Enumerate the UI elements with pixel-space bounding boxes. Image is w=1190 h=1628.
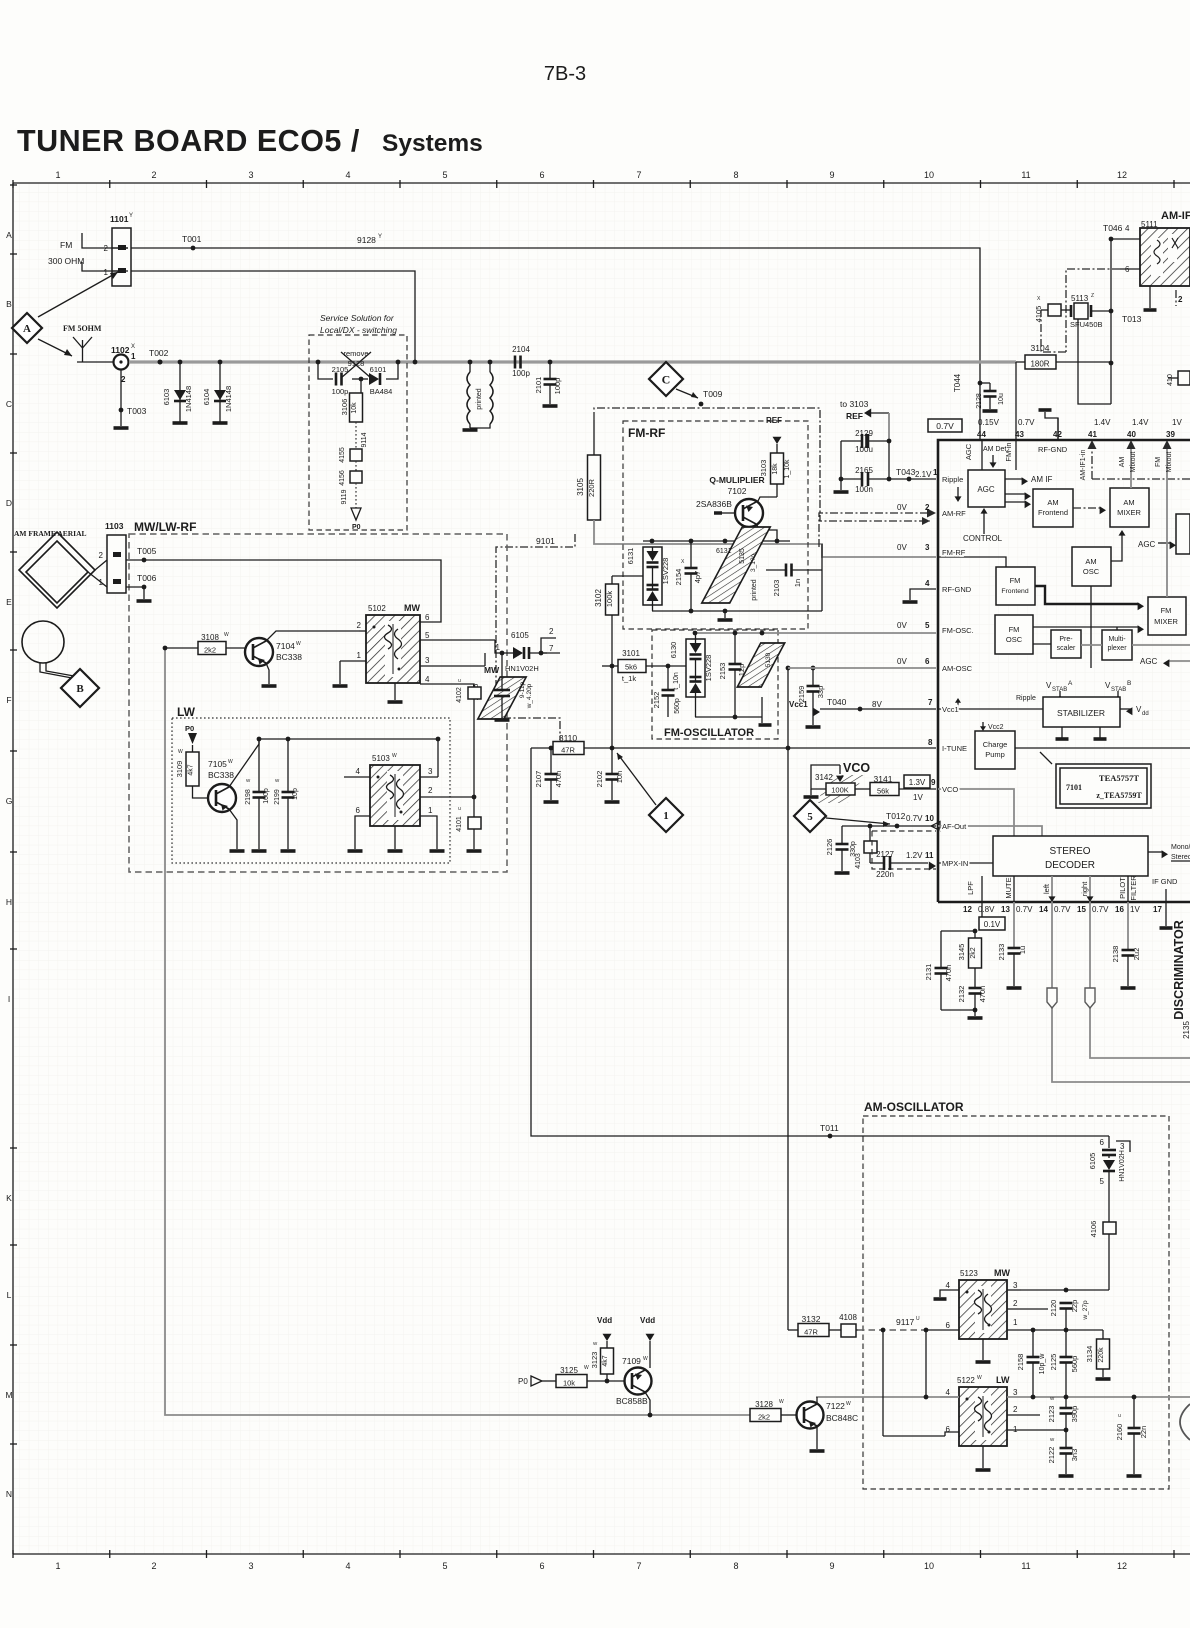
internal block STEREO DECODER bbox=[993, 836, 1148, 876]
svg-text:0.15V: 0.15V bbox=[978, 418, 1000, 427]
output Mono Stereo bbox=[1148, 844, 1190, 861]
link 4107 right edge bbox=[1167, 371, 1190, 386]
svg-text:4: 4 bbox=[925, 579, 930, 588]
svg-text:5k6: 5k6 bbox=[625, 663, 637, 672]
node 5 diamond bbox=[794, 800, 890, 832]
op-amp U7101 TEA5757T outline bbox=[938, 440, 1190, 902]
svg-text:C: C bbox=[6, 399, 12, 409]
supply Vdd 2 bbox=[640, 1316, 655, 1368]
label 0V pin3 bbox=[897, 543, 930, 552]
resistor 3123 4k7 bbox=[590, 1341, 614, 1383]
svg-text:2.1V: 2.1V bbox=[915, 470, 932, 479]
svg-text:FM-RF: FM-RF bbox=[628, 426, 665, 440]
resistor 3125 10k bbox=[556, 1365, 624, 1388]
svg-text:T001: T001 bbox=[182, 234, 202, 244]
svg-text:2: 2 bbox=[1178, 295, 1183, 304]
label 14 0.7V bbox=[1039, 905, 1071, 914]
svg-text:16: 16 bbox=[1115, 905, 1124, 914]
label 16 1V bbox=[1115, 905, 1140, 914]
diode 6105 HN1V02H bbox=[496, 627, 556, 673]
svg-text:w_4.20p: w_4.20p bbox=[526, 683, 533, 709]
svg-text:TUNER BOARD ECO5 /: TUNER BOARD ECO5 / bbox=[17, 124, 360, 158]
svg-text:MW: MW bbox=[994, 1268, 1010, 1278]
svg-text:7B-3: 7B-3 bbox=[544, 63, 586, 85]
svg-text:Vcc2: Vcc2 bbox=[988, 724, 1004, 731]
svg-text:0V: 0V bbox=[897, 657, 907, 666]
wire arrows from node A bbox=[38, 272, 118, 356]
svg-text:2160: 2160 bbox=[1115, 1424, 1124, 1441]
svg-text:5: 5 bbox=[442, 1561, 447, 1571]
internal label AGC right bbox=[1138, 540, 1176, 549]
resistor 3145 2k2 bbox=[957, 938, 982, 968]
svg-text:3: 3 bbox=[1013, 1388, 1018, 1397]
svg-text:5135: 5135 bbox=[739, 548, 746, 564]
svg-text:W: W bbox=[977, 1375, 982, 1381]
svg-text:100p: 100p bbox=[553, 378, 562, 395]
svg-text:AM: AM bbox=[1119, 457, 1126, 468]
svg-text:4105: 4105 bbox=[1034, 306, 1043, 323]
svg-text:1V: 1V bbox=[1172, 418, 1182, 427]
svg-text:7101: 7101 bbox=[1066, 783, 1082, 792]
svg-text:Y: Y bbox=[129, 213, 133, 219]
svg-text:33p: 33p bbox=[816, 686, 825, 699]
svg-text:2132: 2132 bbox=[957, 986, 966, 1003]
svg-text:MIXER: MIXER bbox=[1117, 508, 1141, 517]
svg-text:10: 10 bbox=[924, 170, 934, 180]
svg-text:AM: AM bbox=[1123, 498, 1134, 507]
transformer 5123 MW AM bbox=[934, 1268, 1049, 1362]
bottom pin MUTE bbox=[1004, 876, 1014, 902]
link 4155 bbox=[339, 447, 362, 463]
resistor 3128 2k2 bbox=[750, 1399, 796, 1422]
svg-text:3123: 3123 bbox=[590, 1352, 599, 1369]
wire FM-OSC top to pin 5 bbox=[693, 631, 936, 636]
capacitor 2158 10p bbox=[1016, 1330, 1046, 1397]
svg-text:6: 6 bbox=[425, 613, 430, 622]
svg-text:8: 8 bbox=[733, 170, 738, 180]
screen wire 9101 top bbox=[594, 408, 930, 525]
svg-text:Mixout: Mixout bbox=[1130, 452, 1137, 473]
svg-text:9: 9 bbox=[829, 1561, 834, 1571]
svg-text:3: 3 bbox=[425, 656, 430, 665]
svg-text:A: A bbox=[1068, 680, 1073, 687]
svg-text:4: 4 bbox=[1125, 224, 1130, 233]
svg-text:1.3V: 1.3V bbox=[909, 778, 926, 787]
wire long left vertical bbox=[163, 646, 750, 1418]
ground 5111 bbox=[1144, 286, 1157, 310]
resistor 3102 100k bbox=[594, 576, 643, 748]
capacitor 2120 22p bbox=[1049, 1300, 1089, 1330]
svg-text:22p: 22p bbox=[1070, 1300, 1079, 1313]
svg-text:W: W bbox=[224, 632, 229, 638]
pin name MPX-IN bbox=[942, 859, 968, 868]
svg-text:56k: 56k bbox=[877, 787, 889, 796]
svg-text:1.4V: 1.4V bbox=[1132, 418, 1149, 427]
svg-text:Multi-: Multi- bbox=[1108, 636, 1126, 643]
node REF arrow bbox=[766, 416, 782, 453]
svg-text:6105: 6105 bbox=[1088, 1153, 1097, 1170]
svg-text:3: 3 bbox=[925, 543, 930, 552]
svg-text:2: 2 bbox=[428, 786, 433, 795]
internal wire prescaler multiplexer bbox=[1081, 627, 1190, 645]
svg-text:K: K bbox=[6, 1193, 12, 1203]
svg-text:VCO: VCO bbox=[942, 785, 958, 794]
svg-text:6130: 6130 bbox=[669, 642, 678, 659]
svg-text:10: 10 bbox=[925, 814, 934, 823]
svg-text:0.7V: 0.7V bbox=[1092, 905, 1109, 914]
label FM 300 OHM bbox=[48, 240, 84, 266]
svg-text:AM-RF: AM-RF bbox=[942, 509, 966, 518]
svg-text:T005: T005 bbox=[137, 546, 157, 556]
svg-text:470n: 470n bbox=[554, 771, 563, 788]
test point T002 bbox=[149, 348, 169, 364]
svg-text:Vcc1: Vcc1 bbox=[789, 700, 808, 709]
svg-text:AM-IF1-in: AM-IF1-in bbox=[1080, 450, 1087, 481]
svg-text:100u: 100u bbox=[855, 445, 873, 454]
bottom pin IF GND bbox=[1152, 877, 1178, 902]
svg-text:T040: T040 bbox=[827, 697, 847, 707]
svg-text:4103: 4103 bbox=[855, 853, 862, 869]
svg-text:220n: 220n bbox=[876, 870, 894, 879]
svg-text:AGC: AGC bbox=[977, 485, 995, 494]
svg-text:Local/DX - switching: Local/DX - switching bbox=[320, 325, 397, 335]
svg-text:Mixout: Mixout bbox=[1166, 452, 1173, 473]
test point T012 bbox=[886, 811, 934, 828]
diode 6103 bbox=[162, 362, 193, 423]
svg-text:6103: 6103 bbox=[162, 389, 171, 406]
svg-text:2158: 2158 bbox=[1016, 1354, 1025, 1371]
transformer 5103 LW bbox=[344, 739, 476, 851]
svg-text:10p: 10p bbox=[292, 788, 299, 800]
svg-text:to 3103: to 3103 bbox=[840, 399, 869, 409]
capacitor 2126 330p bbox=[825, 826, 857, 873]
svg-text:1V: 1V bbox=[913, 793, 923, 802]
internal wire I-TUNE through bbox=[1015, 747, 1190, 749]
svg-text:BC338: BC338 bbox=[208, 770, 234, 780]
svg-text:0.7V: 0.7V bbox=[906, 814, 923, 823]
svg-text:2125: 2125 bbox=[1049, 1354, 1058, 1371]
svg-text:plexer: plexer bbox=[1107, 645, 1127, 652]
pin name RF-GND left bbox=[942, 585, 972, 594]
svg-text:4101: 4101 bbox=[456, 816, 463, 832]
svg-text:Systems: Systems bbox=[382, 130, 483, 157]
test point T001 bbox=[182, 234, 202, 250]
pin name AM-RF bbox=[942, 509, 966, 518]
svg-text:8V: 8V bbox=[872, 700, 882, 709]
svg-text:OSC: OSC bbox=[1083, 567, 1100, 576]
svg-text:7122: 7122 bbox=[826, 1401, 845, 1411]
svg-text:U: U bbox=[458, 806, 461, 811]
svg-text:AM-IF1: AM-IF1 bbox=[1161, 210, 1190, 222]
pin name FM-OSC. bbox=[942, 626, 974, 635]
resistor 3110 47R bbox=[553, 733, 584, 755]
svg-text:1V: 1V bbox=[1130, 905, 1140, 914]
label 1V 39 bbox=[1166, 418, 1182, 439]
svg-text:U: U bbox=[916, 1316, 920, 1322]
test point T009 bbox=[699, 389, 723, 406]
svg-text:AGC: AGC bbox=[964, 443, 973, 460]
svg-text:G: G bbox=[6, 796, 13, 806]
label MW/LW-RF bbox=[134, 520, 196, 534]
label DISCRIMINATOR bbox=[1172, 920, 1190, 1039]
internal ground stabilizer left bbox=[1056, 727, 1069, 739]
svg-text:2: 2 bbox=[549, 627, 554, 636]
internal label VSTAB B bbox=[1105, 680, 1131, 700]
svg-text:AM: AM bbox=[1085, 557, 1096, 566]
svg-text:40: 40 bbox=[1127, 430, 1136, 439]
svg-text:STEREO: STEREO bbox=[1049, 846, 1090, 857]
svg-text:4106: 4106 bbox=[1089, 1221, 1098, 1238]
transistor 7102 2SA836B bbox=[696, 484, 777, 541]
svg-text:FM: FM bbox=[1161, 606, 1172, 615]
svg-text:2: 2 bbox=[925, 503, 930, 512]
svg-text:REF: REF bbox=[766, 416, 782, 425]
resistor 3132 47R bbox=[788, 1314, 841, 1337]
boxed label 0.7V top bbox=[928, 419, 962, 432]
service solution dashed box bbox=[309, 335, 407, 530]
label 1.4V 40 bbox=[1127, 418, 1149, 439]
svg-text:AM: AM bbox=[1047, 498, 1058, 507]
svg-text:FM: FM bbox=[1010, 576, 1021, 585]
page number text bbox=[544, 63, 586, 85]
svg-text:1103: 1103 bbox=[105, 521, 124, 531]
jumper 9114 bbox=[356, 422, 368, 449]
label 0.15V 44 bbox=[977, 418, 1000, 439]
svg-text:44: 44 bbox=[977, 430, 986, 439]
internal block STABILIZER bbox=[1043, 697, 1120, 727]
svg-text:7: 7 bbox=[636, 170, 641, 180]
svg-text:FM: FM bbox=[60, 240, 72, 250]
capacitor 2102 10n bbox=[595, 748, 624, 802]
svg-text:0.7V: 0.7V bbox=[1018, 418, 1035, 427]
transistor 7122 BC848C bbox=[797, 1397, 859, 1451]
wire 1101 pin1 bbox=[131, 271, 415, 361]
capacitor 2103 1n bbox=[766, 564, 822, 597]
loop antenna circle bbox=[22, 621, 74, 678]
svg-text:CONTROL: CONTROL bbox=[963, 534, 1003, 543]
svg-text:2SA836B: 2SA836B bbox=[696, 499, 732, 509]
svg-text:100n: 100n bbox=[855, 485, 873, 494]
resistor 3134 220k bbox=[1085, 1330, 1111, 1379]
svg-text:FM-OSCILLATOR: FM-OSCILLATOR bbox=[664, 727, 754, 739]
svg-text:0.1V: 0.1V bbox=[984, 920, 1001, 929]
wire I-TUNE down to AM oscillator bbox=[531, 748, 1109, 1136]
wire AM Mixout pin 40 bbox=[1119, 440, 1137, 488]
filter 5113 SFU450B bbox=[1061, 293, 1113, 329]
svg-text:4p7: 4p7 bbox=[693, 571, 702, 584]
label service solution bbox=[320, 313, 397, 335]
svg-text:3145: 3145 bbox=[957, 944, 966, 961]
test point T043 bbox=[896, 467, 938, 481]
trimmer capacitor 2106 MW bbox=[471, 651, 533, 720]
label 15 0.7V bbox=[1077, 905, 1109, 914]
svg-text:41: 41 bbox=[1088, 430, 1097, 439]
svg-text:100p: 100p bbox=[512, 369, 530, 378]
internal ground stabilizer right bbox=[1094, 727, 1107, 739]
capacitor 2154 4p7 bbox=[674, 541, 702, 611]
capacitor 2104 bbox=[512, 345, 530, 378]
svg-text:12: 12 bbox=[1117, 1561, 1127, 1571]
wire right output bbox=[1085, 902, 1190, 1058]
wire FM-RF internal bottom bbox=[652, 609, 822, 620]
svg-text:5: 5 bbox=[442, 170, 447, 180]
svg-text:0V: 0V bbox=[897, 621, 907, 630]
label REF to 3103 bbox=[840, 399, 889, 441]
svg-text:w_27p: w_27p bbox=[1082, 1300, 1089, 1321]
svg-text:F: F bbox=[6, 695, 11, 705]
link 4108 bbox=[839, 1313, 858, 1337]
AM frame aerial symbol bbox=[19, 532, 107, 608]
test point T003 bbox=[119, 369, 147, 426]
svg-text:100p: 100p bbox=[332, 387, 349, 396]
screen dashdot AM-IF1 bbox=[1041, 269, 1120, 352]
svg-text:2153: 2153 bbox=[718, 663, 727, 680]
svg-text:T011: T011 bbox=[820, 1123, 839, 1133]
svg-text:C: C bbox=[662, 372, 671, 386]
svg-text:4156: 4156 bbox=[339, 470, 346, 486]
internal block AM OSC bbox=[1072, 547, 1111, 586]
node P0 service bbox=[351, 508, 361, 531]
svg-text:6: 6 bbox=[539, 1561, 544, 1571]
svg-text:RF-GND: RF-GND bbox=[1038, 445, 1068, 454]
svg-text:7: 7 bbox=[549, 644, 554, 653]
svg-text:MUTE: MUTE bbox=[1004, 877, 1013, 898]
internal block FM MIXER bbox=[1148, 597, 1186, 635]
bottom pin left bbox=[1042, 876, 1056, 902]
svg-text:t_1k: t_1k bbox=[622, 674, 636, 683]
node P0 arrow LW bbox=[185, 724, 197, 752]
svg-text:W: W bbox=[584, 1365, 589, 1371]
internal block Charge Pump bbox=[975, 731, 1015, 769]
svg-text:2101: 2101 bbox=[534, 377, 543, 394]
label VCO bbox=[843, 761, 870, 775]
svg-text:1n: 1n bbox=[793, 579, 802, 587]
capacitor 2105 bbox=[332, 365, 349, 396]
svg-text:9: 9 bbox=[931, 778, 936, 787]
svg-text:L: L bbox=[7, 1290, 12, 1300]
capacitor 2131 470n bbox=[924, 931, 953, 1010]
svg-text:M: M bbox=[5, 1390, 12, 1400]
wire 9128 to pin 44 bbox=[131, 234, 980, 440]
svg-text:9: 9 bbox=[829, 170, 834, 180]
svg-text:BC858B: BC858B bbox=[616, 1396, 648, 1406]
svg-text:t_10n: t_10n bbox=[673, 672, 680, 690]
svg-text:12: 12 bbox=[1117, 170, 1127, 180]
svg-text:1: 1 bbox=[428, 806, 433, 815]
svg-text:6: 6 bbox=[539, 170, 544, 180]
svg-text:BC338: BC338 bbox=[276, 652, 302, 662]
wire 4106 to MW pin 3 bbox=[1021, 1288, 1109, 1293]
svg-text:1N4148: 1N4148 bbox=[184, 386, 193, 412]
wire 2103 node bbox=[821, 544, 823, 611]
svg-text:2: 2 bbox=[121, 375, 126, 384]
svg-text:2198: 2198 bbox=[245, 789, 252, 805]
svg-text:1: 1 bbox=[1013, 1318, 1018, 1327]
label 1.4V 41 bbox=[1088, 418, 1111, 439]
boxed label 1.3V pin 9 bbox=[904, 775, 936, 802]
svg-text:3101: 3101 bbox=[622, 649, 640, 658]
capacitor 2129 100u bbox=[841, 429, 891, 454]
svg-text:T006: T006 bbox=[137, 573, 157, 583]
svg-text:6: 6 bbox=[1100, 1138, 1105, 1147]
internal wire VCO to decoder bbox=[938, 789, 1014, 836]
svg-text:470n: 470n bbox=[944, 965, 953, 982]
svg-text:7105: 7105 bbox=[208, 759, 227, 769]
svg-text:7: 7 bbox=[636, 1561, 641, 1571]
title text bbox=[17, 124, 483, 158]
svg-text:3141: 3141 bbox=[874, 774, 893, 784]
internal block AGC bbox=[968, 470, 1005, 507]
wire FM-OSC pin 5 label bbox=[897, 657, 930, 666]
transformer 5122 LW AM bbox=[940, 1375, 1068, 1470]
svg-text:5: 5 bbox=[1100, 1177, 1105, 1186]
svg-text:2154: 2154 bbox=[674, 569, 683, 586]
svg-text:4155: 4155 bbox=[339, 447, 346, 463]
svg-text:7109: 7109 bbox=[622, 1356, 641, 1366]
wire LW line bbox=[816, 1330, 1190, 1436]
svg-text:U: U bbox=[458, 678, 461, 683]
svg-text:LPF: LPF bbox=[966, 881, 975, 895]
label 12 0.8V bbox=[963, 905, 995, 914]
internal label Vdd bbox=[1120, 705, 1149, 717]
svg-text:2199: 2199 bbox=[274, 789, 281, 805]
node A bbox=[12, 313, 42, 343]
svg-text:Charge: Charge bbox=[983, 740, 1008, 749]
svg-text:9128: 9128 bbox=[357, 235, 376, 245]
varicap 6130 1SV228 bbox=[669, 633, 713, 717]
svg-text:7102: 7102 bbox=[728, 486, 747, 496]
svg-text:2138: 2138 bbox=[1111, 946, 1120, 963]
svg-text:scaler: scaler bbox=[1057, 645, 1076, 652]
capacitor 2133 1u bbox=[997, 902, 1027, 988]
ground 1102 bbox=[114, 426, 129, 430]
pin name Ripple bbox=[942, 477, 962, 502]
svg-text:Pump: Pump bbox=[985, 750, 1005, 759]
connector 1103 bbox=[99, 521, 126, 593]
svg-text:H: H bbox=[6, 897, 12, 907]
svg-text:A: A bbox=[6, 230, 12, 240]
svg-text:6: 6 bbox=[925, 657, 930, 666]
svg-text:3: 3 bbox=[1120, 1142, 1125, 1151]
svg-text:2126: 2126 bbox=[825, 839, 834, 856]
resistor 3108 2k2 bbox=[165, 632, 246, 655]
svg-text:Ripple: Ripple bbox=[1016, 695, 1036, 702]
svg-text:Vcc1: Vcc1 bbox=[942, 705, 959, 714]
svg-text:10p_w: 10p_w bbox=[1039, 1353, 1046, 1375]
label AM FRAME AERIAL bbox=[14, 529, 87, 538]
svg-text:3: 3 bbox=[428, 767, 433, 776]
screen to pin 41 bbox=[1080, 440, 1190, 480]
svg-text:2122: 2122 bbox=[1047, 1447, 1056, 1464]
svg-text:39: 39 bbox=[1166, 430, 1175, 439]
resistor 3103 bbox=[759, 453, 791, 484]
svg-text:REF: REF bbox=[846, 411, 863, 421]
svg-text:3108: 3108 bbox=[201, 633, 219, 642]
svg-text:390p: 390p bbox=[1070, 1406, 1079, 1423]
svg-text:3106: 3106 bbox=[340, 399, 349, 416]
internal block Multiplexer bbox=[1102, 630, 1132, 660]
resistor 3141 56k bbox=[855, 774, 936, 796]
pin name overlay bbox=[942, 475, 974, 868]
svg-text:FM-RF: FM-RF bbox=[942, 548, 966, 557]
svg-text:2133: 2133 bbox=[997, 944, 1006, 961]
wire AM-OSC pin 6 bbox=[788, 667, 936, 669]
screen AM-RF to pin 2 bbox=[819, 503, 936, 547]
svg-text:RF-GND: RF-GND bbox=[942, 585, 972, 594]
svg-text:12: 12 bbox=[963, 905, 972, 914]
transistor 7109 BC858B bbox=[616, 1356, 652, 1415]
label pin 2 right edge bbox=[1176, 290, 1183, 306]
